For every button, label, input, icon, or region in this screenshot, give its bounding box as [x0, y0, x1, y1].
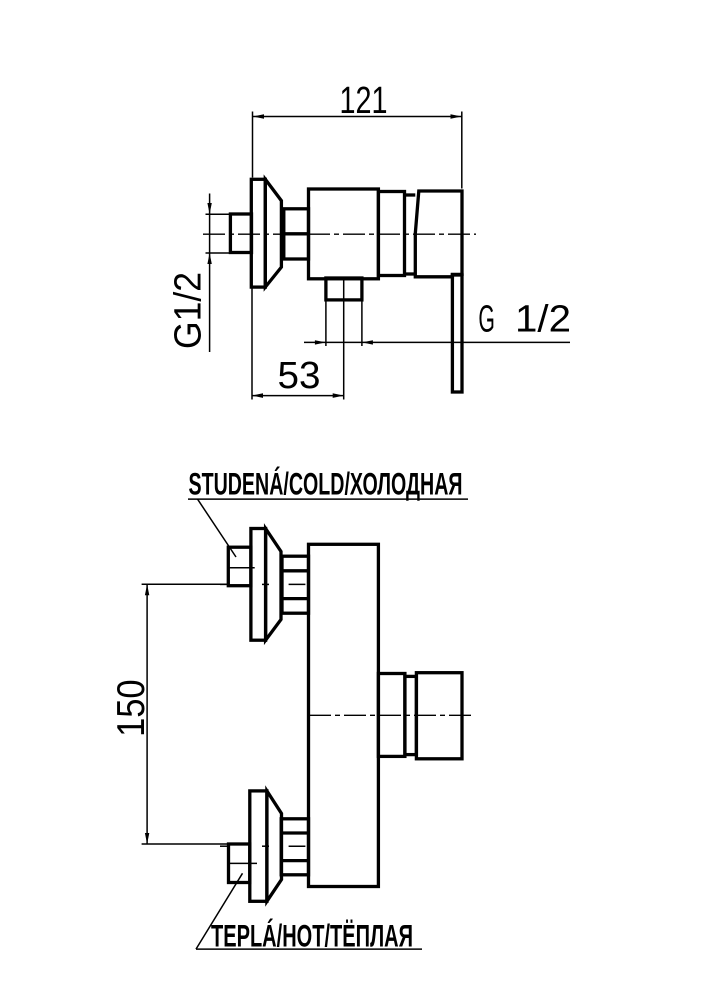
wire outlet ext right	[361, 300, 363, 346]
svg-text:121: 121	[340, 80, 388, 122]
escutcheon plate side view	[251, 179, 265, 287]
node dim150 arrow bottom	[145, 833, 149, 844]
node dim121 arrow right	[451, 114, 462, 119]
wire TEPLA leader	[196, 873, 243, 949]
hot hex nut front	[281, 819, 308, 875]
handle cap side view	[415, 191, 462, 277]
wire dim53 ext left	[251, 288, 253, 400]
svg-text:150: 150	[110, 679, 153, 737]
wire STUDENA underline	[188, 498, 468, 500]
node G1/2 arrow down	[207, 203, 211, 214]
wire dim53 line	[252, 395, 344, 397]
wire G1/2 ext bottom	[206, 252, 232, 254]
hot escutcheon cone	[267, 791, 282, 901]
outlet neck front	[378, 674, 405, 757]
wire cold flange axis seg2	[262, 583, 269, 585]
wire STUDENA leader	[198, 499, 237, 557]
wire hot flange axis seg2	[262, 845, 269, 847]
wire dim121 line	[253, 116, 462, 118]
wire dim121 extension left	[252, 112, 254, 178]
wire dim150 vertical	[146, 584, 148, 844]
svg-text:1/2: 1/2	[515, 298, 571, 340]
wire TEPLA underline	[196, 948, 422, 950]
wire hot flange axis seg3	[289, 845, 306, 847]
wire cold stub axis	[228, 567, 255, 569]
handle lever	[452, 275, 462, 392]
wire dim150 ext top	[142, 583, 229, 585]
node G1/2 arrow up	[207, 253, 211, 264]
cold escutcheon plate	[251, 529, 266, 641]
centerline top view	[203, 233, 476, 235]
wire hot stub axis	[228, 862, 257, 864]
hex nut mid line	[284, 232, 309, 235]
wire hot flange axis seg1	[220, 845, 228, 847]
outlet cap front	[416, 673, 462, 759]
pipe stub side view	[230, 214, 251, 253]
wire dim53 ext right center of stub	[343, 280, 345, 400]
node G12 arrow left-pointing	[362, 340, 373, 344]
wire dim150 ext bottom	[142, 843, 229, 845]
cartridge ring side view	[378, 192, 404, 276]
cold nut band line2	[282, 597, 309, 600]
cold stub front view	[228, 547, 251, 586]
wire outlet ext left	[325, 300, 327, 346]
hot nut band line1	[281, 831, 308, 834]
outlet collar front	[405, 676, 417, 754]
hot nut band line2	[281, 859, 308, 862]
cold hex nut front	[282, 556, 309, 613]
node dim150 arrow top	[145, 584, 149, 595]
mixer body side view	[309, 189, 379, 279]
svg-text:STUDENÁ/COLD/ХОЛОДНАЯ: STUDENÁ/COLD/ХОЛОДНАЯ	[189, 466, 463, 502]
cold escutcheon cone	[266, 529, 281, 641]
centerline bottom view	[309, 714, 474, 716]
wire cold flange axis seg3	[289, 583, 306, 585]
cold nut band line1	[282, 569, 309, 572]
node dim53 arrow left	[252, 393, 263, 398]
node dim121 arrow left	[253, 114, 264, 119]
hex nut side view	[284, 209, 309, 259]
wire cold flange axis seg1	[220, 583, 228, 585]
outlet stub bottom	[326, 278, 362, 300]
wire dim121 extension right	[461, 112, 463, 189]
svg-text:G: G	[478, 297, 495, 340]
wire G12 right dim line	[304, 341, 570, 343]
hot escutcheon plate	[250, 791, 267, 901]
wire G1/2 left dim vertical	[209, 194, 211, 353]
wire G1/2 ext top	[206, 213, 232, 215]
cartridge band side view	[405, 193, 416, 196]
escutcheon cone side view	[265, 179, 281, 287]
svg-text:53: 53	[278, 355, 321, 397]
hot stub front view	[229, 844, 250, 883]
node G12 arrow right-pointing	[315, 340, 326, 344]
svg-text:TEPLÁ/HOT/ТЁПЛАЯ: TEPLÁ/HOT/ТЁПЛАЯ	[211, 917, 413, 953]
node dim53 arrow right	[333, 393, 344, 398]
svg-text:G1/2: G1/2	[168, 272, 210, 349]
mixer body front view	[309, 544, 379, 886]
